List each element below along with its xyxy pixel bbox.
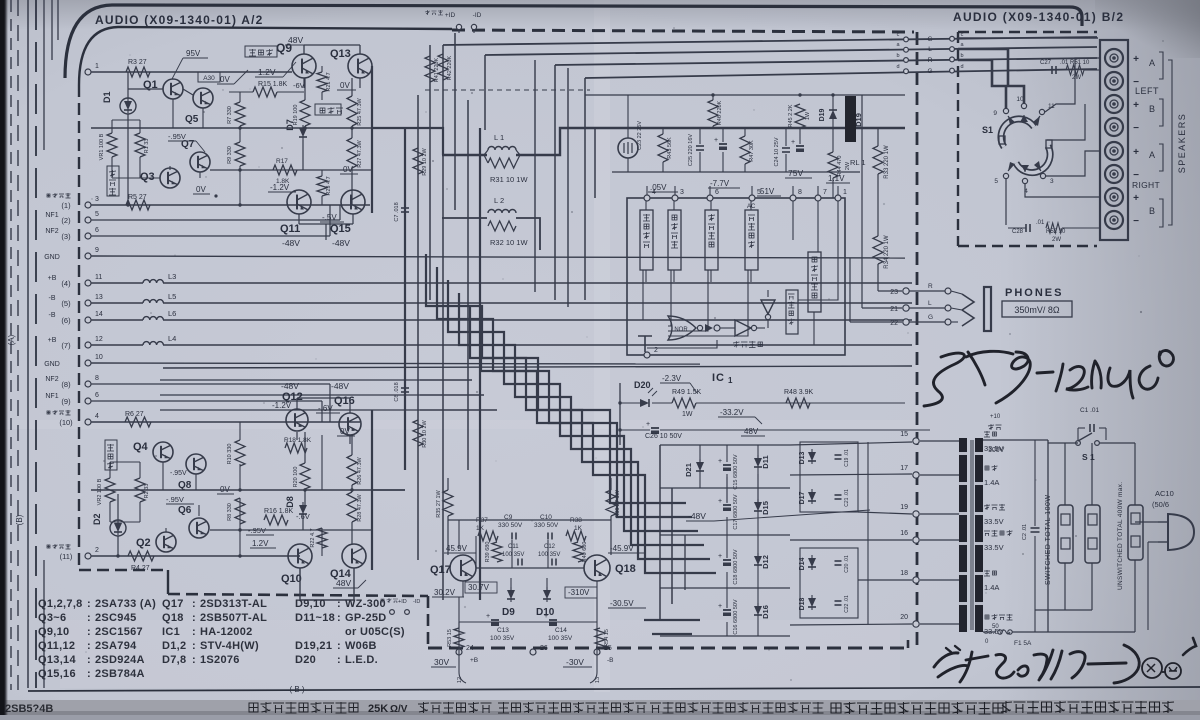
svg-text:6: 6 bbox=[715, 189, 719, 196]
svg-text:L5: L5 bbox=[168, 292, 176, 301]
svg-text:C2 .01: C2 .01 bbox=[1022, 524, 1028, 540]
svg-text:3: 3 bbox=[680, 189, 684, 196]
svg-text:R20 100: R20 100 bbox=[293, 467, 299, 488]
svg-text:D1: D1 bbox=[102, 91, 112, 103]
svg-text:A30: A30 bbox=[203, 75, 215, 82]
svg-text:2SA794: 2SA794 bbox=[95, 640, 137, 652]
svg-text:R43 56K: R43 56K bbox=[667, 137, 673, 159]
svg-text:d: d bbox=[896, 64, 899, 70]
svg-text:1.2V: 1.2V bbox=[252, 539, 269, 548]
svg-text:R39 680: R39 680 bbox=[485, 542, 491, 563]
svg-text:-2.3V: -2.3V bbox=[662, 374, 682, 383]
svg-text:0V: 0V bbox=[196, 185, 206, 194]
svg-text:1W: 1W bbox=[805, 111, 811, 120]
svg-text:2SD313T-AL: 2SD313T-AL bbox=[200, 598, 267, 610]
svg-text:NF2: NF2 bbox=[45, 376, 58, 383]
svg-text:-ID: -ID bbox=[413, 599, 420, 605]
svg-text:+B: +B bbox=[48, 275, 57, 282]
svg-text:51V: 51V bbox=[760, 187, 775, 196]
svg-text:R2 33: R2 33 bbox=[144, 484, 150, 499]
svg-text:330 50V: 330 50V bbox=[534, 522, 559, 529]
svg-text:-.5V: -.5V bbox=[322, 213, 337, 222]
svg-text:13: 13 bbox=[95, 294, 103, 301]
svg-text:A: A bbox=[1149, 150, 1155, 160]
svg-text:+: + bbox=[1133, 193, 1139, 204]
svg-text:-48V: -48V bbox=[688, 511, 706, 521]
svg-text:33.5V: 33.5V bbox=[984, 517, 1004, 526]
svg-text:+ID: +ID bbox=[445, 12, 456, 19]
svg-text:14: 14 bbox=[95, 311, 103, 318]
svg-text:+: + bbox=[1133, 147, 1139, 158]
svg-text:1: 1 bbox=[728, 376, 733, 385]
svg-text:UNSWITCHED TOTAL 400W max.: UNSWITCHED TOTAL 400W max. bbox=[1117, 482, 1124, 590]
svg-text:48V: 48V bbox=[336, 578, 351, 588]
svg-text:C28: C28 bbox=[1012, 229, 1024, 235]
svg-text:2W: 2W bbox=[845, 161, 851, 170]
svg-text:1.1V: 1.1V bbox=[828, 174, 845, 183]
svg-text:.05V: .05V bbox=[650, 183, 667, 192]
svg-text:2W: 2W bbox=[1072, 75, 1081, 81]
svg-text::: : bbox=[192, 654, 196, 666]
svg-text:C27: C27 bbox=[1040, 60, 1052, 66]
svg-text:R17: R17 bbox=[276, 158, 288, 165]
svg-text:-48V: -48V bbox=[281, 381, 299, 391]
svg-text::: : bbox=[192, 626, 196, 638]
svg-text:C19 .01: C19 .01 bbox=[844, 449, 850, 467]
svg-text:R32 10 1W: R32 10 1W bbox=[490, 238, 528, 247]
svg-text:R36 27 1W: R36 27 1W bbox=[615, 489, 621, 517]
svg-text:(8): (8) bbox=[61, 380, 71, 389]
svg-text:20: 20 bbox=[900, 614, 908, 621]
svg-text:D11: D11 bbox=[761, 455, 770, 468]
svg-text:GND: GND bbox=[44, 361, 60, 368]
svg-text:1: 1 bbox=[843, 189, 847, 196]
svg-text:+: + bbox=[718, 553, 722, 560]
svg-text:D15: D15 bbox=[761, 501, 770, 515]
svg-text:2SC945: 2SC945 bbox=[95, 612, 137, 624]
svg-text:-ID: -ID bbox=[473, 12, 482, 19]
svg-text::: : bbox=[87, 626, 91, 638]
svg-text:2SD924A: 2SD924A bbox=[95, 654, 145, 666]
svg-text:8: 8 bbox=[798, 189, 802, 196]
svg-text:R23 4.7: R23 4.7 bbox=[326, 176, 332, 195]
svg-text:D9: D9 bbox=[502, 607, 515, 618]
svg-text:WZ-300: WZ-300 bbox=[345, 598, 386, 610]
svg-text:30.7V: 30.7V bbox=[468, 583, 490, 592]
svg-text:C15 6800 50V: C15 6800 50V bbox=[733, 454, 739, 489]
svg-text:(11): (11) bbox=[60, 552, 73, 561]
svg-text:-.95V: -.95V bbox=[170, 470, 187, 477]
svg-text::: : bbox=[87, 612, 91, 624]
svg-text:C7 .018: C7 .018 bbox=[394, 202, 400, 221]
svg-text:13: 13 bbox=[595, 677, 601, 683]
svg-text:-33.2V: -33.2V bbox=[720, 408, 744, 417]
svg-text::: : bbox=[337, 640, 341, 652]
svg-text:A: A bbox=[1149, 58, 1155, 68]
svg-text:2SA733 (A): 2SA733 (A) bbox=[95, 598, 156, 610]
svg-text:R15 1.8K: R15 1.8K bbox=[258, 81, 288, 88]
svg-text:19: 19 bbox=[900, 504, 908, 511]
svg-text:R49 1.5K: R49 1.5K bbox=[672, 389, 702, 396]
svg-text:D11~18: D11~18 bbox=[295, 612, 335, 624]
svg-text:R28 47.3W: R28 47.3W bbox=[357, 493, 363, 521]
svg-text:6: 6 bbox=[95, 392, 99, 399]
svg-text:2SB5?4B: 2SB5?4B bbox=[5, 703, 53, 715]
svg-text:R42 220K: R42 220K bbox=[447, 55, 453, 80]
svg-text:(5): (5) bbox=[61, 299, 71, 308]
svg-text:-45.9V: -45.9V bbox=[610, 544, 634, 553]
svg-text:0V: 0V bbox=[220, 75, 230, 84]
svg-text:+: + bbox=[791, 139, 795, 146]
svg-text:12: 12 bbox=[457, 677, 463, 683]
svg-text:100V: 100V bbox=[988, 447, 1005, 454]
svg-text:C25 220 16V: C25 220 16V bbox=[688, 134, 694, 166]
svg-text:+: + bbox=[718, 498, 722, 505]
svg-text:G: G bbox=[927, 36, 932, 43]
svg-text:8: 8 bbox=[95, 375, 99, 382]
svg-text:5: 5 bbox=[95, 211, 99, 218]
svg-text:25: 25 bbox=[604, 645, 612, 652]
svg-text:R30 10 2W: R30 10 2W bbox=[422, 419, 428, 447]
svg-text:26: 26 bbox=[540, 645, 548, 652]
svg-text:-30V: -30V bbox=[566, 657, 584, 667]
svg-text:-.6V: -.6V bbox=[318, 404, 333, 413]
svg-text:(A): (A) bbox=[7, 334, 16, 345]
svg-text:1.4A: 1.4A bbox=[984, 478, 999, 487]
svg-text:Q11,12: Q11,12 bbox=[38, 640, 75, 652]
svg-text:C12: C12 bbox=[544, 544, 556, 550]
svg-text:GND: GND bbox=[44, 254, 60, 261]
svg-text:b: b bbox=[960, 53, 963, 59]
svg-text::: : bbox=[87, 598, 91, 610]
svg-text:+: + bbox=[714, 137, 718, 144]
svg-text:Ω/V: Ω/V bbox=[390, 704, 408, 715]
svg-text:10: 10 bbox=[95, 354, 103, 361]
svg-text:100 35V: 100 35V bbox=[548, 635, 573, 642]
svg-text:-.95V: -.95V bbox=[168, 132, 186, 141]
svg-text:R16 1.8K: R16 1.8K bbox=[264, 508, 294, 515]
svg-text:50: 50 bbox=[992, 624, 999, 630]
svg-text:R10 330: R10 330 bbox=[227, 444, 233, 465]
svg-text:C22 .01: C22 .01 bbox=[844, 595, 850, 613]
svg-text:17: 17 bbox=[900, 465, 908, 472]
svg-text:G: G bbox=[927, 68, 932, 75]
svg-text:R6 27: R6 27 bbox=[125, 411, 144, 418]
svg-text:.01: .01 bbox=[1036, 220, 1045, 226]
svg-text:D20: D20 bbox=[634, 380, 651, 390]
svg-text:C1 .01: C1 .01 bbox=[1080, 407, 1100, 414]
svg-text:+: + bbox=[1133, 54, 1139, 65]
svg-text:-310V: -310V bbox=[568, 588, 590, 597]
svg-text:R9 330: R9 330 bbox=[227, 146, 233, 164]
svg-text:R29 10 2W: R29 10 2W bbox=[422, 147, 428, 175]
svg-text:3: 3 bbox=[1050, 178, 1054, 185]
svg-text:STV-4H(W): STV-4H(W) bbox=[200, 640, 259, 652]
svg-text:R40 680: R40 680 bbox=[582, 542, 588, 563]
svg-text:(10): (10) bbox=[59, 418, 73, 427]
svg-text:(4): (4) bbox=[61, 279, 71, 288]
svg-text:D14: D14 bbox=[799, 557, 806, 570]
svg-text:R53 15: R53 15 bbox=[447, 629, 453, 647]
svg-text:D2: D2 bbox=[92, 513, 102, 525]
svg-text:Q3: Q3 bbox=[140, 171, 155, 183]
svg-text:48V: 48V bbox=[288, 35, 303, 45]
svg-text:R7 330: R7 330 bbox=[227, 106, 233, 124]
svg-text:D7,8: D7,8 bbox=[162, 654, 186, 666]
svg-text:b: b bbox=[896, 53, 899, 59]
svg-text:Q2: Q2 bbox=[136, 537, 151, 549]
svg-text::: : bbox=[87, 654, 91, 666]
svg-text:+: + bbox=[718, 458, 722, 465]
svg-text:C21 .01: C21 .01 bbox=[844, 489, 850, 507]
svg-text:B: B bbox=[1149, 104, 1155, 114]
svg-text:Q15,16: Q15,16 bbox=[38, 668, 76, 680]
svg-text:-7.7V: -7.7V bbox=[710, 179, 730, 188]
svg-text:2SB507T-AL: 2SB507T-AL bbox=[200, 612, 267, 624]
svg-text:D20: D20 bbox=[295, 654, 316, 666]
svg-text:R41 220K: R41 220K bbox=[434, 57, 440, 82]
svg-text:-B: -B bbox=[49, 312, 56, 319]
svg-text:D18: D18 bbox=[799, 597, 806, 610]
svg-text:R45 2.2K: R45 2.2K bbox=[788, 104, 794, 127]
svg-text:C18 6800 50V: C18 6800 50V bbox=[733, 549, 739, 584]
svg-text:Q4: Q4 bbox=[133, 441, 149, 453]
svg-text:L4: L4 bbox=[168, 334, 176, 343]
svg-text:IC: IC bbox=[712, 372, 725, 384]
svg-text:L 1: L 1 bbox=[494, 133, 504, 142]
svg-text:SPEAKERS: SPEAKERS bbox=[1177, 113, 1187, 174]
svg-text:0V: 0V bbox=[340, 81, 350, 90]
svg-text:C23 22 25V: C23 22 25V bbox=[637, 121, 643, 150]
svg-text:+10: +10 bbox=[990, 414, 1001, 420]
svg-text:R34 220 1W: R34 220 1W bbox=[884, 235, 890, 269]
svg-text:VR1 100 B: VR1 100 B bbox=[99, 133, 105, 160]
svg-text:Q9,10: Q9,10 bbox=[38, 626, 69, 638]
svg-text:or U05C(S): or U05C(S) bbox=[345, 626, 405, 638]
svg-text::: : bbox=[337, 612, 341, 624]
svg-text:25K: 25K bbox=[368, 703, 388, 715]
svg-text:30.2V: 30.2V bbox=[434, 588, 456, 597]
svg-text:−: − bbox=[1133, 123, 1139, 134]
svg-text:Q17: Q17 bbox=[162, 598, 184, 610]
svg-text:L6: L6 bbox=[168, 309, 176, 318]
svg-text:D12: D12 bbox=[761, 555, 770, 569]
svg-text:C26 10 50V: C26 10 50V bbox=[645, 433, 682, 440]
svg-text:S 1: S 1 bbox=[1082, 452, 1095, 462]
svg-text:R31 10 1W: R31 10 1W bbox=[490, 175, 528, 184]
svg-text:NOR: NOR bbox=[674, 327, 688, 333]
svg-text:95V: 95V bbox=[186, 49, 201, 58]
svg-text:2: 2 bbox=[95, 547, 99, 554]
svg-text:R1 33: R1 33 bbox=[144, 139, 150, 154]
svg-text:2SB784A: 2SB784A bbox=[95, 668, 145, 680]
svg-text:L: L bbox=[928, 46, 932, 53]
svg-text:15: 15 bbox=[900, 431, 908, 438]
svg-text:4: 4 bbox=[95, 413, 99, 420]
svg-text:Q10: Q10 bbox=[281, 573, 302, 585]
svg-text:Q1,2,7,8: Q1,2,7,8 bbox=[38, 598, 83, 610]
svg-text:(2): (2) bbox=[61, 216, 71, 225]
svg-text:3: 3 bbox=[95, 196, 99, 203]
svg-text:16: 16 bbox=[900, 530, 908, 537]
svg-text:33.5V: 33.5V bbox=[984, 543, 1004, 552]
svg-text:D13: D13 bbox=[799, 451, 806, 464]
svg-text:(50/6: (50/6 bbox=[1152, 500, 1169, 509]
svg-text:-48V: -48V bbox=[332, 238, 350, 248]
svg-text:R33 220 1W: R33 220 1W bbox=[884, 145, 890, 179]
svg-text:C14: C14 bbox=[555, 627, 567, 634]
svg-text:F1 5A: F1 5A bbox=[1014, 640, 1032, 647]
svg-text:S1: S1 bbox=[982, 125, 993, 135]
svg-text::: : bbox=[337, 598, 341, 610]
svg-text:C13: C13 bbox=[497, 627, 509, 634]
svg-text:D19,21: D19,21 bbox=[295, 640, 332, 652]
svg-text:Q13,14: Q13,14 bbox=[38, 654, 76, 666]
svg-text:AC10: AC10 bbox=[1155, 489, 1174, 498]
svg-text:D17: D17 bbox=[799, 491, 806, 504]
svg-text:C24 10 25V: C24 10 25V bbox=[774, 137, 780, 166]
svg-text:6: 6 bbox=[95, 227, 99, 234]
svg-text:2SC1567: 2SC1567 bbox=[95, 626, 143, 638]
svg-text:R18 1.8K: R18 1.8K bbox=[284, 437, 312, 444]
svg-text:R35 27 1W: R35 27 1W bbox=[436, 489, 442, 517]
svg-text:c: c bbox=[961, 32, 964, 38]
svg-text:23: 23 bbox=[890, 289, 898, 296]
svg-text:D8: D8 bbox=[285, 496, 295, 508]
svg-text:.01 R51 10: .01 R51 10 bbox=[1060, 60, 1090, 66]
svg-text:C17 6800 50V: C17 6800 50V bbox=[733, 494, 739, 529]
svg-text:R3 27: R3 27 bbox=[128, 59, 147, 66]
svg-text:5: 5 bbox=[994, 178, 998, 185]
svg-text:HA-12002: HA-12002 bbox=[200, 626, 253, 638]
svg-text:-1.2V: -1.2V bbox=[272, 401, 292, 410]
svg-text:B: B bbox=[1149, 206, 1155, 216]
svg-text:+: + bbox=[486, 613, 490, 620]
svg-text:L.E.D.: L.E.D. bbox=[345, 654, 378, 666]
svg-text:NF2: NF2 bbox=[45, 228, 58, 235]
svg-text:R46 220K: R46 220K bbox=[717, 100, 723, 125]
svg-text:L 2: L 2 bbox=[494, 196, 504, 205]
svg-text:NF1: NF1 bbox=[45, 393, 58, 400]
svg-text:D16: D16 bbox=[761, 605, 770, 619]
svg-text:(3): (3) bbox=[61, 232, 71, 241]
svg-text:1S2076: 1S2076 bbox=[200, 654, 240, 666]
svg-text:18: 18 bbox=[900, 570, 908, 577]
svg-text:100 35V: 100 35V bbox=[490, 635, 515, 642]
svg-text:Q16: Q16 bbox=[334, 395, 355, 407]
svg-text:+ID: +ID bbox=[398, 599, 407, 605]
svg-text:Q6: Q6 bbox=[178, 505, 192, 516]
svg-text:RIGHT: RIGHT bbox=[1132, 180, 1160, 190]
svg-text:VR2 100 B: VR2 100 B bbox=[97, 478, 103, 505]
svg-text::: : bbox=[192, 640, 196, 652]
svg-text:R5 27: R5 27 bbox=[128, 194, 147, 201]
svg-text:D7: D7 bbox=[285, 119, 295, 131]
svg-text:22: 22 bbox=[890, 320, 898, 327]
svg-text:12: 12 bbox=[95, 336, 103, 343]
svg-text:100 35V: 100 35V bbox=[502, 552, 524, 558]
svg-text:+B: +B bbox=[48, 337, 57, 344]
svg-text:IC1: IC1 bbox=[162, 626, 180, 638]
svg-text:R22 4.7: R22 4.7 bbox=[310, 528, 316, 547]
svg-text:-B: -B bbox=[607, 657, 614, 664]
svg-text:9: 9 bbox=[993, 110, 997, 117]
svg-text:R: R bbox=[928, 283, 933, 290]
svg-text:C8 .018: C8 .018 bbox=[394, 382, 400, 401]
svg-text:+: + bbox=[718, 603, 722, 610]
svg-text:Q15: Q15 bbox=[330, 223, 351, 235]
svg-text:L3: L3 bbox=[168, 272, 176, 281]
svg-text:L: L bbox=[928, 300, 932, 307]
svg-text:AC: AC bbox=[747, 204, 756, 210]
svg-text:7: 7 bbox=[823, 189, 827, 196]
svg-text:R26 47.3W: R26 47.3W bbox=[357, 456, 363, 484]
svg-text:C20 .01: C20 .01 bbox=[844, 555, 850, 573]
svg-text:21: 21 bbox=[890, 306, 898, 313]
svg-text:45.9V: 45.9V bbox=[446, 544, 468, 553]
svg-text:Q13: Q13 bbox=[330, 48, 351, 60]
svg-text:75V: 75V bbox=[788, 168, 803, 178]
svg-text:c: c bbox=[897, 32, 900, 38]
svg-text:48V: 48V bbox=[744, 427, 759, 436]
svg-text:2W: 2W bbox=[1052, 237, 1061, 243]
svg-text::: : bbox=[87, 640, 91, 652]
svg-text:100 35V: 100 35V bbox=[538, 552, 560, 558]
svg-text:11: 11 bbox=[95, 274, 102, 281]
svg-text:NF1: NF1 bbox=[45, 212, 58, 219]
svg-text:R27 47.3W: R27 47.3W bbox=[357, 139, 363, 167]
svg-text:-30.5V: -30.5V bbox=[610, 599, 634, 608]
svg-text:1.2V: 1.2V bbox=[258, 67, 276, 77]
svg-text::: : bbox=[192, 598, 196, 610]
svg-text:R4 27: R4 27 bbox=[131, 565, 150, 572]
svg-text:C16 6800 50V: C16 6800 50V bbox=[733, 599, 739, 634]
svg-text:+: + bbox=[646, 421, 650, 428]
svg-text:+: + bbox=[544, 613, 548, 620]
svg-text:D1,2: D1,2 bbox=[162, 640, 186, 652]
svg-text:R47 30K: R47 30K bbox=[749, 140, 755, 162]
svg-text:-B: -B bbox=[49, 295, 56, 302]
svg-text:AUDIO (X09-1340-01) B/2: AUDIO (X09-1340-01) B/2 bbox=[953, 10, 1124, 24]
svg-text:1.8K: 1.8K bbox=[276, 178, 290, 185]
svg-text:330 50V: 330 50V bbox=[498, 522, 523, 529]
svg-text::: : bbox=[87, 668, 91, 680]
svg-text:+: + bbox=[1133, 100, 1139, 111]
svg-text:-48V: -48V bbox=[282, 238, 300, 248]
svg-text:Q3~6: Q3~6 bbox=[38, 612, 66, 624]
svg-text:PHONES: PHONES bbox=[1005, 287, 1063, 299]
svg-text::: : bbox=[192, 612, 196, 624]
svg-text:(1): (1) bbox=[61, 201, 71, 210]
svg-text:(9): (9) bbox=[61, 397, 71, 406]
svg-text:Q18: Q18 bbox=[615, 563, 636, 575]
svg-text:Q11: Q11 bbox=[280, 223, 300, 235]
svg-text:SWITCHED TOTAL 100W: SWITCHED TOTAL 100W bbox=[1045, 494, 1052, 585]
svg-text:R: R bbox=[928, 57, 933, 64]
svg-text:Q17: Q17 bbox=[430, 564, 451, 576]
svg-text:G: G bbox=[928, 314, 933, 321]
svg-text:d: d bbox=[960, 64, 963, 70]
svg-text:1: 1 bbox=[95, 63, 99, 70]
svg-text:(B): (B) bbox=[15, 514, 24, 525]
svg-text:R21 4.7: R21 4.7 bbox=[326, 72, 332, 91]
svg-text:D9,10: D9,10 bbox=[295, 598, 326, 610]
svg-text:−: − bbox=[1133, 216, 1139, 227]
svg-text:LEFT: LEFT bbox=[1135, 86, 1159, 96]
svg-text:W06B: W06B bbox=[345, 640, 377, 652]
svg-text:+B: +B bbox=[470, 657, 478, 664]
svg-text:R8 330: R8 330 bbox=[227, 503, 233, 521]
